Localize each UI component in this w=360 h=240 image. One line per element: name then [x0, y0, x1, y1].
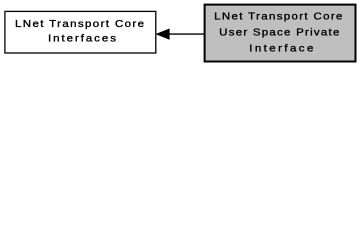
svg-text:LNet Transport Core: LNet Transport Core — [214, 11, 342, 22]
node: LNet Transport Core User Space Private Interface (right box, current node) — [205, 5, 356, 62]
svg-text:User Space Private: User Space Private — [219, 27, 339, 38]
edge: arrow from right box to left box — [157, 29, 204, 39]
wire: arrow shaft — [169, 33, 205, 35]
node: LNet Transport Core Interfaces (left box) — [5, 11, 156, 53]
arrowhead — [157, 29, 169, 39]
svg-text:LNet Transport Core: LNet Transport Core — [15, 18, 144, 29]
svg-text:Interface: Interface — [249, 43, 313, 54]
svg-text:Interfaces: Interfaces — [48, 33, 116, 44]
